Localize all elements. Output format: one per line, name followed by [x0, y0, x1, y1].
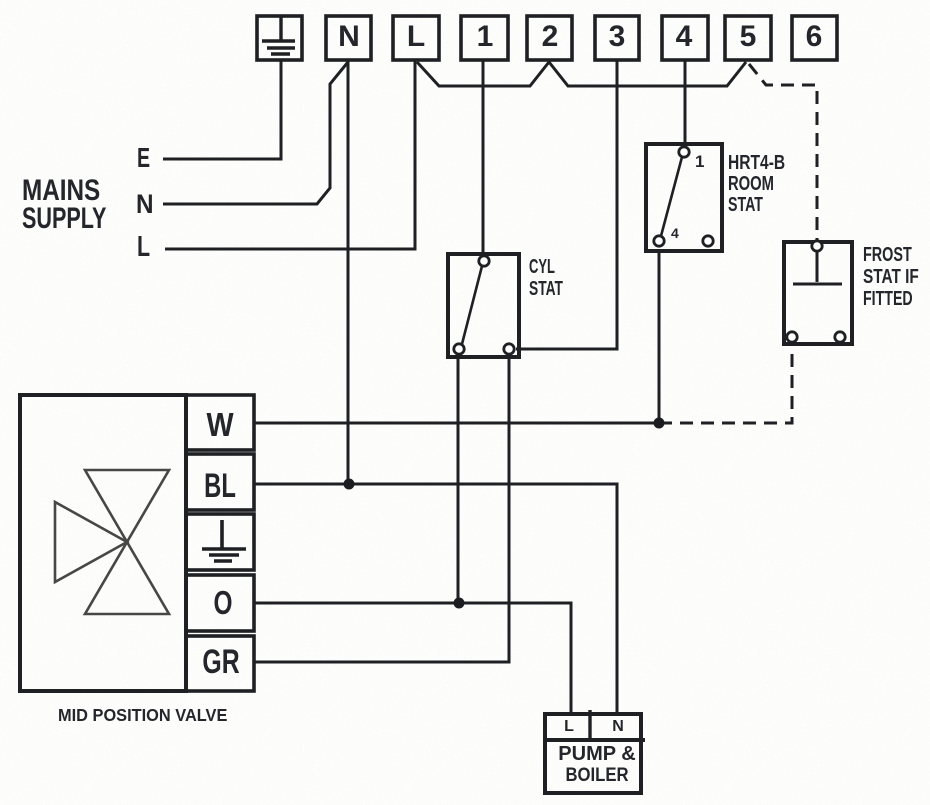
svg-text:FROST: FROST [863, 243, 912, 266]
svg-text:O: O [214, 586, 233, 622]
svg-text:6: 6 [806, 20, 823, 53]
svg-text:N: N [612, 718, 624, 735]
svg-text:HRT4-B: HRT4-B [728, 151, 785, 173]
svg-text:2: 2 [542, 20, 559, 53]
svg-text:5: 5 [740, 20, 757, 53]
svg-text:FITTED: FITTED [863, 287, 913, 310]
svg-text:1: 1 [695, 152, 704, 171]
svg-text:E: E [137, 143, 150, 174]
svg-text:BL: BL [204, 467, 236, 505]
svg-text:STAT: STAT [529, 276, 563, 299]
svg-text:L: L [407, 20, 425, 53]
svg-text:4: 4 [676, 20, 693, 53]
svg-text:STAT: STAT [728, 193, 763, 216]
svg-text:ROOM: ROOM [728, 172, 774, 195]
svg-text:3: 3 [609, 20, 626, 53]
svg-text:MID POSITION VALVE: MID POSITION VALVE [58, 704, 227, 725]
svg-text:W: W [206, 406, 234, 443]
svg-text:CYL: CYL [529, 255, 555, 278]
svg-text:PUMP &: PUMP & [558, 743, 635, 765]
svg-text:N: N [338, 20, 360, 53]
svg-text:1: 1 [477, 20, 494, 53]
svg-text:4: 4 [671, 225, 679, 241]
svg-text:GR: GR [202, 643, 239, 681]
svg-text:L: L [137, 231, 150, 263]
svg-text:STAT IF: STAT IF [863, 265, 919, 287]
svg-text:N: N [136, 190, 154, 219]
svg-text:SUPPLY: SUPPLY [22, 200, 106, 234]
svg-text:L: L [564, 718, 574, 735]
svg-text:BOILER: BOILER [565, 764, 628, 785]
